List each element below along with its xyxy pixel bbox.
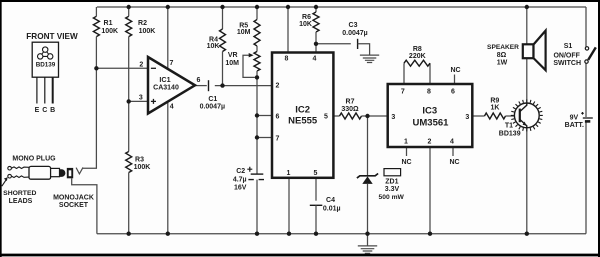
- transistor T1 emitter arrow: [523, 122, 527, 126]
- wire rail to R5: [256, 7, 258, 20]
- svg-text:FRONT VIEW: FRONT VIEW: [26, 32, 78, 41]
- svg-text:2: 2: [276, 82, 280, 89]
- svg-text:100K: 100K: [101, 28, 118, 35]
- svg-text:R8: R8: [413, 46, 422, 53]
- svg-text:4.7µ: 4.7µ: [233, 177, 247, 184]
- svg-text:BATT.: BATT.: [565, 122, 584, 129]
- svg-text:3: 3: [391, 114, 395, 121]
- switch S1 bottom contact: [585, 60, 588, 63]
- wire monojack sleeve to ground rail: [72, 178, 97, 233]
- svg-text:LEADS: LEADS: [9, 198, 33, 205]
- shorted leads arrow: [2, 179, 7, 186]
- svg-text:5: 5: [314, 170, 318, 177]
- svg-text:E: E: [35, 107, 40, 114]
- node ground rail junction 6: [365, 232, 369, 236]
- svg-text:220K: 220K: [409, 53, 426, 60]
- svg-text:0.0047µ: 0.0047µ: [342, 30, 367, 37]
- BD139 package front view box: [32, 42, 58, 77]
- svg-text:NC: NC: [449, 159, 459, 166]
- svg-text:3: 3: [139, 94, 143, 101]
- wire R4 to pin2 node: [222, 52, 224, 86]
- battery B1 short plate: [585, 120, 590, 123]
- svg-text:9V: 9V: [570, 114, 579, 121]
- mono plug tip: [60, 169, 66, 177]
- svg-text:10M: 10M: [225, 60, 239, 67]
- node pin3 node: [127, 99, 131, 103]
- svg-text:BD139: BD139: [499, 130, 521, 137]
- svg-text:1W: 1W: [497, 59, 508, 66]
- svg-text:SPEAKER: SPEAKER: [487, 44, 519, 51]
- svg-text:MONOJACK: MONOJACK: [53, 194, 94, 201]
- svg-text:IC1: IC1: [159, 75, 170, 84]
- op-amp U1 IC1 CA3140 triangle: [148, 57, 195, 114]
- node ground rail junction 7: [428, 232, 432, 236]
- wire rail to R2: [128, 7, 130, 16]
- svg-text:T1: T1: [505, 123, 513, 130]
- node ground rail junction 5: [314, 232, 318, 236]
- wire node to zener ZD1: [367, 116, 369, 176]
- svg-text:NC: NC: [401, 159, 411, 166]
- wire left column top (rail to R1): [95, 7, 97, 16]
- node top rail junction 2: [166, 5, 170, 9]
- svg-text:0.0047µ: 0.0047µ: [200, 103, 225, 110]
- wire bottom ground rail: [97, 233, 586, 235]
- border frame: [0, 0, 600, 2]
- speaker cone: [534, 31, 546, 71]
- svg-text:10K: 10K: [299, 21, 312, 28]
- BD139 lead E: [36, 77, 38, 103]
- mono plug terminals: [8, 166, 12, 170]
- capacitor C2 negative plate (dashed): [248, 179, 264, 181]
- wire IC3 pin 2 to ground rail: [429, 147, 431, 234]
- node tip/pin2 node: [94, 66, 98, 70]
- battery B1 long plate: [583, 117, 593, 119]
- svg-text:ON/OFF: ON/OFF: [553, 53, 580, 60]
- svg-text:R3: R3: [135, 156, 144, 163]
- mono plug body: [29, 166, 51, 179]
- node top rail junction 4: [255, 5, 259, 9]
- IC2 NE555 box: [272, 53, 333, 178]
- svg-text:7: 7: [401, 89, 405, 96]
- wire R9 to T1 base: [506, 115, 520, 117]
- op-amp IC1 minus sign: [151, 67, 156, 69]
- svg-text:R7: R7: [346, 99, 355, 106]
- wire right rail battery to bottom: [585, 122, 587, 234]
- C2 plus sign: [247, 167, 252, 172]
- svg-text:8: 8: [285, 56, 289, 63]
- wire IC2 pin 5 to C4: [315, 178, 317, 201]
- wire node pin3 (junction to IC1 pin 3): [129, 100, 148, 102]
- svg-text:S1: S1: [564, 43, 573, 50]
- wire T1 emitter to ground rail: [526, 126, 528, 233]
- node ground rail junction 2: [166, 232, 170, 236]
- svg-text:7: 7: [276, 135, 280, 142]
- wire C3 to ground symbol: [358, 44, 370, 55]
- node pin6 node: [255, 113, 259, 117]
- zener ZD1 cathode bar: [357, 174, 378, 179]
- svg-text:SHORTED: SHORTED: [3, 190, 36, 197]
- wire node to IC2 pin 7: [257, 137, 272, 139]
- svg-text:6: 6: [451, 89, 455, 96]
- svg-text:C4: C4: [326, 197, 335, 204]
- wire IC1 pin 7 to rail: [167, 7, 169, 69]
- svg-text:3: 3: [465, 114, 469, 121]
- svg-text:6: 6: [276, 113, 280, 120]
- wire ZD1 to ground rail: [367, 184, 369, 234]
- wire IC2 output to R7: [333, 115, 339, 117]
- svg-text:16V: 16V: [234, 184, 247, 191]
- BD139 lead C: [44, 77, 46, 103]
- node top rail junction 5: [286, 5, 290, 9]
- svg-text:IC2: IC2: [295, 105, 310, 116]
- wire right rail switch to battery: [585, 63, 587, 117]
- svg-text:CA3140: CA3140: [153, 85, 179, 92]
- battery B1 plus sign: [581, 112, 584, 115]
- wire C2 to ground rail: [256, 180, 258, 234]
- wire rail to R6: [315, 7, 317, 12]
- op-amp IC1 plus sign: [151, 99, 156, 104]
- svg-text:NE555: NE555: [288, 115, 318, 126]
- node ground rail junction 3: [255, 232, 259, 236]
- svg-text:3.3V: 3.3V: [385, 186, 400, 193]
- wire rail to R4: [222, 7, 224, 29]
- resistor R7: [340, 113, 362, 119]
- svg-text:C2: C2: [236, 168, 245, 175]
- svg-text:8Ω: 8Ω: [497, 52, 507, 59]
- wire R5 to VR: [256, 46, 258, 52]
- node pin7 node: [255, 135, 259, 139]
- resistor R2: [126, 16, 132, 36]
- wire top supply rail: [97, 6, 586, 8]
- node top rail junction 1: [127, 5, 131, 9]
- wire node to C3: [316, 43, 351, 45]
- node ground rail junction 1: [127, 232, 131, 236]
- ground symbol at bottom rail: [367, 234, 369, 246]
- mono plug crimp section: [12, 167, 29, 169]
- svg-text:100K: 100K: [139, 28, 156, 35]
- svg-text:ZD1: ZD1: [385, 178, 398, 185]
- switch S1 top contact: [585, 47, 588, 50]
- wire R2 to R3: [128, 37, 130, 152]
- svg-text:SOCKET: SOCKET: [59, 202, 89, 209]
- svg-text:2: 2: [139, 62, 143, 69]
- svg-text:1: 1: [287, 170, 291, 177]
- resistor R6: [313, 12, 319, 32]
- svg-text:2: 2: [428, 138, 432, 145]
- ZD1 label box: [384, 169, 401, 176]
- wire IC1 output pin 6 to C1: [195, 85, 207, 87]
- preset VR element: [254, 52, 260, 72]
- node top rail junction 3: [220, 5, 224, 9]
- svg-text:C: C: [42, 107, 47, 114]
- capacitor C4 plate: [310, 204, 323, 206]
- svg-text:R2: R2: [138, 20, 147, 27]
- resistor R3: [126, 152, 132, 173]
- transistor T1 emitter: [520, 119, 527, 128]
- wire rail through speaker to T1 collector: [526, 7, 528, 105]
- resistor R5: [254, 20, 260, 47]
- capacitor C3 plate: [357, 39, 359, 49]
- BD139 lead B: [52, 77, 54, 103]
- IC3 pin 6 NC stub: [454, 75, 456, 85]
- speaker body: [523, 44, 534, 58]
- IC3 pin 1 NC stub: [406, 147, 408, 156]
- node top rail junction 6: [314, 5, 318, 9]
- node top rail junction 7: [525, 5, 529, 9]
- svg-text:500 mW: 500 mW: [379, 194, 405, 201]
- node ground rail junction 8: [525, 232, 529, 236]
- wire IC2 pin 8 to rail: [287, 7, 289, 53]
- wire node pin2 (junction to IC1 pin 2): [96, 67, 147, 69]
- svg-text:10K: 10K: [207, 43, 220, 50]
- svg-text:1K: 1K: [491, 105, 500, 112]
- svg-text:R9: R9: [490, 98, 499, 105]
- wire C1 to IC2 pin 2: [215, 85, 272, 87]
- wire IC2 pin 1 to ground rail: [288, 178, 290, 234]
- svg-text:4: 4: [170, 103, 174, 110]
- wire R3 to ground rail: [128, 173, 130, 234]
- transistor T1 collector: [520, 103, 527, 112]
- capacitor C2 positive plate: [251, 173, 264, 175]
- svg-text:5: 5: [324, 114, 328, 121]
- wire IC1 pin 4 to ground rail: [167, 102, 169, 234]
- switch S1 lever: [588, 47, 596, 60]
- node R6-C3-pin4 node: [314, 42, 318, 46]
- ground symbol at C3: [360, 55, 379, 62]
- svg-text:SWITCH: SWITCH: [553, 60, 581, 67]
- svg-text:C3: C3: [349, 22, 358, 29]
- svg-text:6: 6: [196, 77, 200, 84]
- wire node to IC2 pin 6: [257, 115, 272, 117]
- capacitor C1 plate: [208, 80, 210, 91]
- resistor R8: [404, 60, 430, 66]
- node ground rail junction 4: [287, 232, 291, 236]
- svg-text:10M: 10M: [237, 29, 251, 36]
- svg-text:0.01µ: 0.01µ: [323, 205, 341, 212]
- svg-text:NC: NC: [450, 67, 460, 74]
- svg-text:1: 1: [404, 138, 408, 145]
- transistor T1 base bar: [519, 109, 521, 123]
- svg-text:VR: VR: [228, 52, 238, 59]
- wire IC3 pin 3 to R9: [472, 115, 484, 117]
- svg-text:7: 7: [169, 60, 173, 67]
- transistor T1 circle with ticks: [514, 103, 539, 128]
- preset VR wiper arrowhead: [249, 53, 254, 57]
- wire R6 to IC2 pin 4: [315, 32, 317, 53]
- node VR wiper node: [255, 75, 259, 79]
- resistor R1: [93, 16, 99, 36]
- resistor R8 leads: [404, 63, 430, 84]
- wire R7 to IC3 pin 3: [362, 115, 388, 117]
- resistor R9: [485, 113, 506, 119]
- svg-text:4: 4: [450, 138, 454, 145]
- svg-text:UM3561: UM3561: [413, 118, 450, 129]
- svg-text:8: 8: [427, 89, 431, 96]
- svg-text:IC3: IC3: [422, 106, 437, 117]
- svg-text:BD139: BD139: [36, 62, 56, 69]
- svg-text:R1: R1: [104, 20, 113, 27]
- svg-text:330Ω: 330Ω: [341, 106, 359, 113]
- zener ZD1 anode triangle: [362, 176, 372, 184]
- monojack socket body: [67, 168, 73, 178]
- wire VR column down through C2 node: [256, 71, 258, 174]
- preset VR wiper arm: [243, 55, 255, 77]
- svg-text:4: 4: [313, 56, 317, 63]
- mono plug shaft: [51, 168, 60, 176]
- wire R1 bottom to monojack tip: [83, 37, 96, 169]
- BD139 package die symbol: [43, 47, 48, 52]
- node R7-ZD1 node: [365, 114, 369, 118]
- IC3 pin 4 NC stub: [452, 147, 454, 156]
- wire right rail above switch: [585, 7, 587, 47]
- svg-text:MONO PLUG: MONO PLUG: [12, 156, 56, 163]
- svg-text:B: B: [50, 107, 55, 114]
- svg-text:C1: C1: [208, 96, 217, 103]
- svg-text:R6: R6: [302, 14, 311, 21]
- svg-text:100K: 100K: [134, 164, 151, 171]
- monojack tip contact V: [76, 167, 83, 174]
- IC3 UM3561 box: [388, 84, 473, 147]
- wire C4 to ground rail: [315, 205, 317, 233]
- node C1-R4 node: [220, 83, 224, 87]
- resistor R4: [220, 29, 226, 52]
